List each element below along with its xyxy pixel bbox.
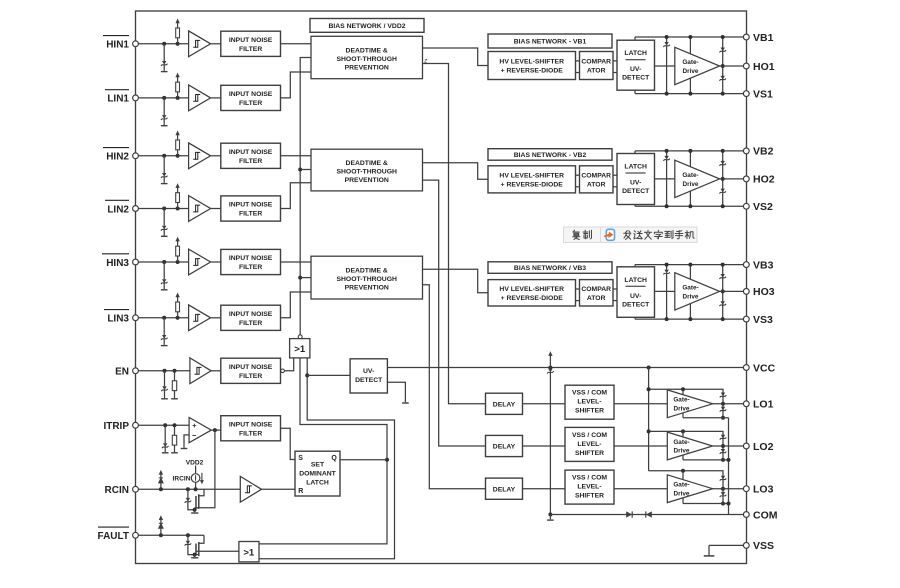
wire HIN1 to filter — [211, 43, 221, 45]
svg-text:Q: Q — [331, 455, 337, 462]
resistor LIN3 pull-up to VDD1 — [177, 312, 179, 318]
pin LIN3 — [133, 315, 139, 321]
wire LO3 output — [713, 488, 747, 490]
wire G1 input from UV detect — [259, 358, 395, 559]
ground RCIN FET source — [191, 512, 198, 514]
or-gate G1 >1 enable logic — [290, 339, 310, 358]
schmitt buffer HIN3 — [189, 249, 211, 275]
wire level shifter to gate drive 2 — [614, 445, 667, 447]
resistor HIN2 pull-up to VDD1 — [177, 150, 179, 156]
svg-text:LEVEL-: LEVEL- — [577, 399, 601, 406]
svg-text:PREVENTION: PREVENTION — [345, 177, 389, 184]
svg-text:−: − — [192, 431, 197, 440]
svg-text:ATOR: ATOR — [587, 182, 606, 189]
wire level shifter to gate drive 3 — [614, 488, 667, 490]
svg-text:SHIFTER: SHIFTER — [575, 450, 604, 457]
junction LIN3 node — [162, 316, 166, 320]
svg-text:FILTER: FILTER — [239, 158, 262, 165]
wire HIN2 input line — [138, 155, 188, 157]
ground LIN2 clamp — [161, 235, 168, 237]
wire VS1 rail — [635, 93, 747, 95]
svg-text:SHOOT-THROUGH: SHOOT-THROUGH — [336, 276, 397, 283]
junction VB2 VS2 column 1 — [665, 149, 669, 153]
pin LO3 — [743, 486, 749, 492]
input noise filter HIN2 — [221, 143, 281, 168]
svg-text:HIN3: HIN3 — [106, 258, 129, 269]
junction VB1 VS1 column 1 — [665, 35, 669, 39]
ground COM substrate — [547, 519, 554, 521]
ground ITRIP comparator reference — [181, 448, 188, 450]
wire VB1 rail — [635, 36, 747, 38]
svg-text:LIN1: LIN1 — [107, 94, 129, 105]
wire gate drive supply stubs 2 — [689, 151, 691, 167]
svg-text:z: z — [423, 59, 427, 65]
svg-text:DELAY: DELAY — [493, 401, 516, 408]
svg-text:UV-: UV- — [630, 293, 641, 300]
block COMPARATOR 2 — [580, 166, 614, 193]
svg-text:Drive: Drive — [674, 448, 690, 455]
svg-text:DETECT: DETECT — [355, 377, 383, 384]
svg-text:Gate-: Gate- — [682, 285, 698, 292]
resistor HIN1 pull-up to VDD1 — [177, 38, 179, 44]
svg-text:Gate-: Gate- — [682, 59, 698, 66]
pin HIN3 — [133, 259, 139, 265]
svg-text:Gate-: Gate- — [673, 439, 689, 446]
svg-text:INPUT NOISE: INPUT NOISE — [229, 91, 273, 98]
svg-text:>1: >1 — [243, 547, 255, 558]
zener LIN2 input clamp — [163, 209, 165, 226]
inverter bubble G1 output — [298, 335, 302, 339]
wire EN input line — [138, 370, 190, 372]
svg-text:ATOR: ATOR — [587, 295, 606, 302]
wire ITRIP input line — [138, 424, 189, 426]
svg-text:VSS / COM: VSS / COM — [572, 432, 607, 439]
wire HIN2 filter to deadtime 2 — [281, 155, 312, 157]
input noise filter LIN3 — [221, 305, 281, 330]
svg-text:Drive: Drive — [674, 405, 690, 412]
wire LO2 output — [713, 445, 747, 447]
zener LO1 clamps — [721, 393, 725, 397]
svg-text:HV LEVEL-SHIFTER: HV LEVEL-SHIFTER — [499, 59, 564, 66]
svg-text:LATCH: LATCH — [624, 164, 647, 171]
schmitt buffer LIN3 — [189, 305, 211, 331]
junction return column LO2 — [727, 458, 731, 462]
schmitt buffer LIN1 — [189, 85, 211, 111]
wire LIN1 input line — [138, 97, 188, 99]
pin VS1 — [743, 91, 749, 97]
wire delay to level shifter 2 — [523, 445, 566, 447]
arrow IRCIN direction — [201, 473, 203, 482]
wire delay to level shifter 1 — [523, 403, 566, 405]
svg-text:+ REVERSE-DIODE: + REVERSE-DIODE — [501, 182, 564, 189]
svg-text:DELAY: DELAY — [493, 444, 516, 451]
svg-text:LIN2: LIN2 — [107, 204, 129, 215]
zener gate clamp column 3 — [722, 265, 724, 320]
ground VSS — [704, 555, 715, 557]
svg-text:HV LEVEL-SHIFTER: HV LEVEL-SHIFTER — [499, 286, 564, 293]
wire HIN2 to filter — [211, 155, 221, 157]
or-gate G2 >1 fault driver — [239, 542, 259, 562]
wire latch to gate drive 2 — [655, 178, 675, 180]
svg-text:VSS / COM: VSS / COM — [572, 390, 607, 397]
wire ITRIP comparator output to RCIN discharge FET gate — [196, 430, 215, 508]
wire LIN3 filter to deadtime 3 — [281, 292, 312, 318]
wire level-shifter to comparator 1 — [576, 60, 580, 62]
wire HIN1 filter to deadtime 1 — [281, 43, 312, 45]
svg-text:BIAS NETWORK - VB1: BIAS NETWORK - VB1 — [514, 39, 587, 46]
junction LIN2 node — [162, 207, 166, 211]
svg-text:Gate-: Gate- — [673, 482, 689, 489]
wire latch to gate drive 3 — [655, 290, 675, 292]
wire gate drive supply stub LO2 — [682, 431, 684, 437]
pin LIN2 — [133, 206, 139, 212]
svg-text:LEVEL-: LEVEL- — [577, 441, 601, 448]
resistor EN pull-down — [174, 371, 176, 381]
zener LIN1 input clamp — [163, 98, 165, 115]
svg-text:LO2: LO2 — [753, 441, 774, 453]
svg-text:COMPAR: COMPAR — [581, 286, 611, 293]
op-amp Gate-Drive LO2 — [667, 432, 712, 460]
wire deadtime 2 low-side output to delay — [423, 180, 486, 446]
svg-text:SHIFTER: SHIFTER — [575, 493, 604, 500]
pin HO2 — [743, 176, 749, 182]
wire VCC top rail LO1 — [649, 389, 723, 404]
junction latch Q tee — [385, 458, 389, 462]
svg-text:IRCIN: IRCIN — [173, 475, 191, 482]
wire bottom rail LO2 — [683, 459, 729, 461]
svg-text:FILTER: FILTER — [239, 211, 262, 218]
svg-text:VB1: VB1 — [753, 32, 774, 44]
transistor RCIN discharge NMOS — [195, 496, 197, 508]
svg-text:DETECT: DETECT — [622, 75, 650, 82]
svg-text:Drive: Drive — [683, 293, 699, 300]
wire COM rail — [550, 514, 746, 516]
schmitt buffer HIN1 — [189, 31, 211, 57]
svg-text:FILTER: FILTER — [239, 373, 262, 380]
op-amp Gate-Drive HO3 — [675, 273, 720, 310]
toolbar overlay copy / send-to-phone — [564, 227, 698, 243]
zener bootstrap clamp 1 — [666, 37, 668, 42]
wire LIN2 input line — [138, 208, 188, 210]
svg-text:LATCH: LATCH — [624, 277, 647, 284]
current source IRCIN — [195, 466, 197, 474]
block LATCH / UV-DETECT 2 — [617, 154, 655, 205]
ground EN zener — [161, 398, 168, 400]
wire UV detect to G1 branch — [307, 374, 350, 376]
schmitt buffer EN — [190, 358, 211, 384]
wire HIN3 input line — [138, 261, 188, 263]
pin VB1 — [743, 34, 749, 40]
svg-text:DEADTIME &: DEADTIME & — [346, 160, 388, 167]
comparator ITRIP — [189, 418, 211, 443]
wire LIN2 to filter — [211, 208, 221, 210]
wire LIN3 to filter — [211, 317, 221, 319]
pin VS3 — [743, 316, 749, 322]
block COMPARATOR 1 — [580, 52, 614, 80]
wire VB3 rail — [635, 264, 747, 266]
svg-text:LO1: LO1 — [753, 399, 774, 411]
zener HIN1 input clamp — [163, 44, 165, 61]
op-amp Gate-Drive HO1 — [675, 47, 720, 84]
svg-text:SET: SET — [311, 462, 325, 469]
ground UV-DETECT — [402, 402, 409, 404]
svg-text:COMPAR: COMPAR — [581, 173, 611, 180]
svg-text:R: R — [298, 488, 303, 495]
svg-text:HO2: HO2 — [753, 174, 775, 186]
junction return column LO3 — [727, 502, 731, 506]
svg-text:SHIFTER: SHIFTER — [575, 408, 604, 415]
pin EN — [133, 368, 139, 374]
svg-text:COMPAR: COMPAR — [581, 59, 611, 66]
svg-text:VS3: VS3 — [753, 314, 773, 326]
pin HO3 — [743, 289, 749, 295]
block VSS / COM LEVEL-SHIFTER 1 — [565, 385, 614, 419]
wire comparator to latch 3 — [613, 288, 617, 290]
wire LO1 output — [713, 403, 747, 405]
junction VCC rail — [548, 366, 552, 370]
pin HO1 — [743, 63, 749, 69]
input noise filter LIN2 — [221, 196, 281, 221]
svg-text:VCC: VCC — [753, 362, 776, 374]
svg-text:FILTER: FILTER — [239, 320, 262, 327]
svg-text:VDD2: VDD2 — [186, 459, 204, 466]
pin FAULT — [133, 532, 139, 538]
wire EN to filter — [211, 370, 221, 372]
wire low side return column — [728, 418, 730, 515]
wire RCIN schmitt to latch R input — [262, 488, 296, 490]
wire gate drive supply stubs 3 — [689, 265, 691, 280]
svg-text:HIN2: HIN2 — [106, 152, 129, 163]
wire latch Q output — [340, 459, 387, 461]
pin VCC — [743, 365, 749, 371]
junction LIN1 node — [162, 96, 166, 100]
block SET DOMINANT LATCH — [295, 451, 340, 496]
svg-text:FAULT: FAULT — [98, 531, 129, 542]
block VSS / COM LEVEL-SHIFTER 3 — [565, 470, 614, 504]
IC boundary — [136, 11, 747, 564]
block BIAS NETWORK - VB1 — [488, 34, 612, 48]
svg-text:PREVENTION: PREVENTION — [345, 65, 389, 72]
pin RCIN — [133, 486, 139, 492]
junction RCIN nodes — [159, 487, 163, 491]
block DEADTIME & SHOOT-THROUGH PREVENTION 2 — [311, 149, 423, 191]
svg-text:HO3: HO3 — [753, 286, 775, 298]
wire delay to level shifter 3 — [523, 488, 566, 490]
wire VCC top rail LO2 — [649, 431, 723, 446]
svg-text:COM: COM — [753, 509, 778, 521]
svg-text:INPUT NOISE: INPUT NOISE — [229, 311, 273, 318]
zener HIN3 input clamp — [163, 262, 165, 279]
wire LIN1 to filter — [211, 97, 221, 99]
wire gate drive supply stub LO3 — [682, 471, 684, 480]
junction FAULT nodes — [159, 533, 163, 537]
wire UV-DETECT to VCC rail — [387, 367, 746, 369]
wire UV-DETECT ground stub — [387, 382, 405, 402]
svg-text:+: + — [192, 421, 197, 430]
schmitt buffer RCIN — [240, 476, 261, 502]
wire deadtime 3 high-side output — [423, 269, 489, 293]
pin COM — [743, 512, 749, 518]
block UV-DETECT — [350, 359, 387, 393]
svg-text:DEADTIME &: DEADTIME & — [346, 268, 388, 275]
diode FAULT clamp to VDD with arrow — [160, 519, 162, 536]
svg-text:EN: EN — [115, 367, 129, 378]
zener EN clamp — [164, 371, 166, 387]
svg-text:HIN1: HIN1 — [106, 40, 129, 51]
wire VS3 rail — [635, 318, 747, 320]
wire latch to gate drive 1 — [655, 65, 675, 67]
wire bottom rail LO1 — [683, 417, 729, 419]
zener LO3 clamps — [721, 476, 725, 480]
svg-text:DETECT: DETECT — [622, 188, 650, 195]
wire gate drive supply stubs 1 — [689, 37, 691, 54]
svg-text:+ REVERSE-DIODE: + REVERSE-DIODE — [501, 68, 564, 75]
zener gate clamp column 1 — [722, 37, 724, 94]
svg-text:>1: >1 — [294, 344, 306, 355]
svg-text:RCIN: RCIN — [105, 485, 129, 496]
junction ITRIP node — [163, 423, 167, 427]
block VSS / COM LEVEL-SHIFTER 2 — [565, 427, 614, 461]
svg-text:FILTER: FILTER — [239, 100, 262, 107]
input noise filter LIN1 — [221, 85, 281, 110]
svg-text:BIAS NETWORK / VB3: BIAS NETWORK / VB3 — [514, 265, 586, 272]
junction HIN2 node — [162, 154, 166, 158]
svg-text:UV-: UV- — [363, 368, 374, 375]
schmitt buffer HIN2 — [189, 143, 211, 169]
ground HIN1 clamp — [161, 71, 168, 73]
block BIAS NETWORK - VB2 — [488, 149, 612, 161]
svg-text:VS1: VS1 — [753, 88, 773, 100]
wire RCIN input line — [138, 488, 240, 490]
ground LIN1 clamp — [161, 125, 168, 127]
svg-text:VB3: VB3 — [753, 259, 774, 271]
svg-text:LIN3: LIN3 — [107, 314, 129, 325]
resistor ITRIP pull-down — [174, 425, 176, 435]
zener ITRIP clamp — [164, 425, 166, 443]
svg-text:VS2: VS2 — [753, 201, 773, 213]
svg-text:SHOOT-THROUGH: SHOOT-THROUGH — [336, 56, 397, 63]
wire comparator to latch 1 — [613, 60, 617, 62]
wire VCC bus to low side drivers — [648, 368, 650, 471]
wire ITRIP comparator minus input to ground — [184, 435, 189, 448]
pin LO2 — [743, 443, 749, 449]
wire LIN2 filter to deadtime 2 — [281, 183, 312, 209]
block DEADTIME & SHOOT-THROUGH PREVENTION 3 — [311, 256, 423, 299]
junction deadtime bus taps — [298, 168, 302, 172]
zener bootstrap clamp 3 — [666, 265, 668, 270]
svg-text:INPUT NOISE: INPUT NOISE — [229, 421, 273, 428]
block DELAY 3 — [486, 478, 523, 499]
op-amp Gate-Drive HO2 — [675, 160, 720, 197]
wire level shifter to gate drive 1 — [614, 403, 667, 405]
svg-text:INPUT NOISE: INPUT NOISE — [229, 364, 273, 371]
svg-text:Drive: Drive — [683, 181, 699, 188]
svg-text:ITRIP: ITRIP — [103, 421, 129, 432]
wire VCC top rail LO3 — [649, 471, 723, 489]
svg-text:LO3: LO3 — [753, 484, 774, 496]
wire comparator to latch 2 — [613, 174, 617, 176]
svg-text:+ REVERSE-DIODE: + REVERSE-DIODE — [501, 295, 564, 302]
op-amp Gate-Drive LO3 — [667, 475, 712, 503]
svg-text:HV LEVEL-SHIFTER: HV LEVEL-SHIFTER — [499, 173, 564, 180]
block BIAS NETWORK / VDD2 — [310, 19, 424, 33]
zener RCIN internal — [187, 489, 189, 498]
pin LO1 — [743, 401, 749, 407]
block COMPARATOR 3 — [580, 280, 614, 306]
svg-text:BIAS NETWORK / VDD2: BIAS NETWORK / VDD2 — [328, 23, 405, 30]
svg-text:FILTER: FILTER — [239, 46, 262, 53]
diode COM pair — [626, 511, 632, 517]
block HV LEVEL-SHIFTER + REVERSE-DIODE 3 — [488, 280, 576, 306]
wire G1 output bus to deadtime blocks — [300, 58, 311, 335]
svg-text:VSS / COM: VSS / COM — [572, 475, 607, 482]
inverter bubble EN filter output — [281, 369, 285, 373]
block LATCH / UV-DETECT 1 — [617, 40, 655, 90]
svg-text:INPUT NOISE: INPUT NOISE — [229, 202, 273, 209]
input noise filter EN — [221, 358, 281, 383]
zener HIN2 input clamp — [163, 156, 165, 173]
svg-text:DELAY: DELAY — [493, 486, 516, 493]
wire bottom rail LO3 — [683, 503, 729, 505]
pin VB2 — [743, 148, 749, 154]
wire HIN3 to filter — [211, 261, 221, 263]
resistor HIN3 pull-up to VDD1 — [177, 256, 179, 262]
wire FAULT output line — [138, 534, 204, 536]
junction HIN3 node — [162, 260, 166, 264]
svg-text:S: S — [298, 455, 303, 462]
svg-text:DOMINANT: DOMINANT — [299, 471, 336, 478]
svg-text:FILTER: FILTER — [239, 264, 262, 271]
svg-text:LEVEL-: LEVEL- — [577, 484, 601, 491]
transistor FAULT open-drain NMOS — [195, 544, 197, 555]
block DEADTIME & SHOOT-THROUGH PREVENTION 1 — [311, 36, 423, 78]
svg-text:VSS: VSS — [753, 540, 774, 552]
block DELAY 1 — [486, 393, 523, 414]
wire HO2 output — [720, 178, 747, 180]
pin LIN1 — [133, 95, 139, 101]
pin VS2 — [743, 203, 749, 209]
wire HIN3 filter to deadtime 3 — [281, 261, 312, 263]
wire deadtime 1 low-side output to delay — [423, 64, 486, 404]
svg-text:VB2: VB2 — [753, 146, 774, 158]
svg-text:Drive: Drive — [683, 68, 699, 75]
schmitt buffer LIN2 — [189, 196, 211, 222]
pin VSS — [743, 543, 749, 549]
svg-text:Gate-: Gate- — [673, 397, 689, 404]
svg-text:SHOOT-THROUGH: SHOOT-THROUGH — [336, 169, 397, 176]
svg-text:INPUT NOISE: INPUT NOISE — [229, 149, 273, 156]
wire deadtime 3 low-side output to delay — [423, 285, 486, 489]
op-amp Gate-Drive LO1 — [667, 390, 712, 418]
wire LIN3 input line — [138, 317, 188, 319]
junction UV detect tee — [305, 373, 309, 377]
zener bootstrap clamp 2 — [666, 151, 668, 156]
ground EN resistor — [171, 398, 178, 400]
wire HO1 output — [720, 65, 747, 67]
ground LIN3 clamp — [161, 345, 168, 347]
wire LIN1 filter to deadtime 1 — [281, 72, 312, 98]
wire FAULT FET gate from OR gate — [196, 550, 239, 552]
resistor LIN2 pull-up to VDD1 — [177, 203, 179, 209]
wire VSS stub — [709, 544, 747, 546]
input noise filter ITRIP — [221, 416, 281, 441]
svg-text:LATCH: LATCH — [306, 480, 329, 487]
svg-text:Gate-: Gate- — [682, 172, 698, 179]
junction COM rail end — [548, 513, 552, 517]
svg-text:DEADTIME &: DEADTIME & — [346, 48, 388, 55]
input noise filter HIN3 — [221, 249, 281, 274]
wire deadtime 1 high-side output — [423, 48, 489, 66]
